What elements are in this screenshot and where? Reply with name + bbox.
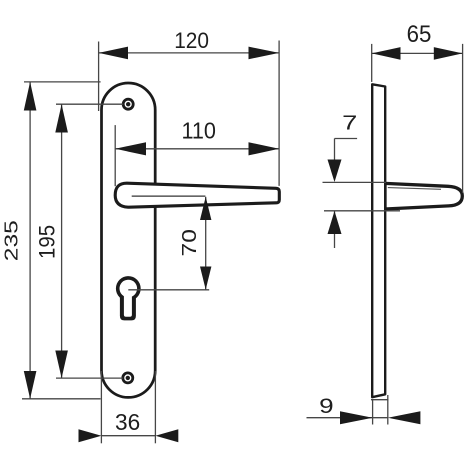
right ext (99, 52, 280, 54)
top screw (123, 99, 133, 109)
bottom leader (334, 211, 336, 248)
ext (115, 148, 279, 150)
svg-text:235: 235 (2, 220, 22, 261)
back plate bar (372, 84, 385, 397)
svg-text:36: 36 (115, 409, 140, 435)
svg-text:120: 120 (174, 28, 209, 53)
svg-text:9: 9 (319, 395, 334, 418)
bottom screw (123, 373, 133, 383)
keyhole leader (205, 197, 207, 290)
bottom leader to screw (61, 104, 63, 378)
top leader (324, 210, 400, 212)
left ext (278, 41, 280, 186)
vertical down (323, 181, 387, 183)
keyhole white interior (120, 280, 138, 317)
bottom leader (29, 82, 31, 399)
plate (stadium shaped escutcheon) (102, 83, 156, 397)
right ext (101, 435, 155, 437)
svg-text:65: 65 (407, 21, 432, 48)
left ext (462, 44, 464, 193)
svg-text:70: 70 (179, 229, 201, 256)
text shelf (334, 139, 336, 161)
right ext (307, 417, 388, 419)
side handle inner line (388, 188, 441, 190)
handle inner line (132, 195, 206, 197)
top leader (22, 398, 101, 400)
top leader to screw (56, 377, 123, 379)
svg-text:195: 195 (35, 225, 60, 259)
keyhole (euro profile) black silhouette (116, 276, 141, 320)
lever handle front (115, 183, 279, 207)
right ext (372, 52, 463, 54)
lever handle side (385, 183, 462, 209)
bar bottom leader (371, 399, 389, 401)
left ext (154, 371, 156, 443)
left ext (387, 395, 389, 425)
svg-text:7: 7 (342, 113, 357, 135)
svg-text:110: 110 (181, 118, 216, 144)
